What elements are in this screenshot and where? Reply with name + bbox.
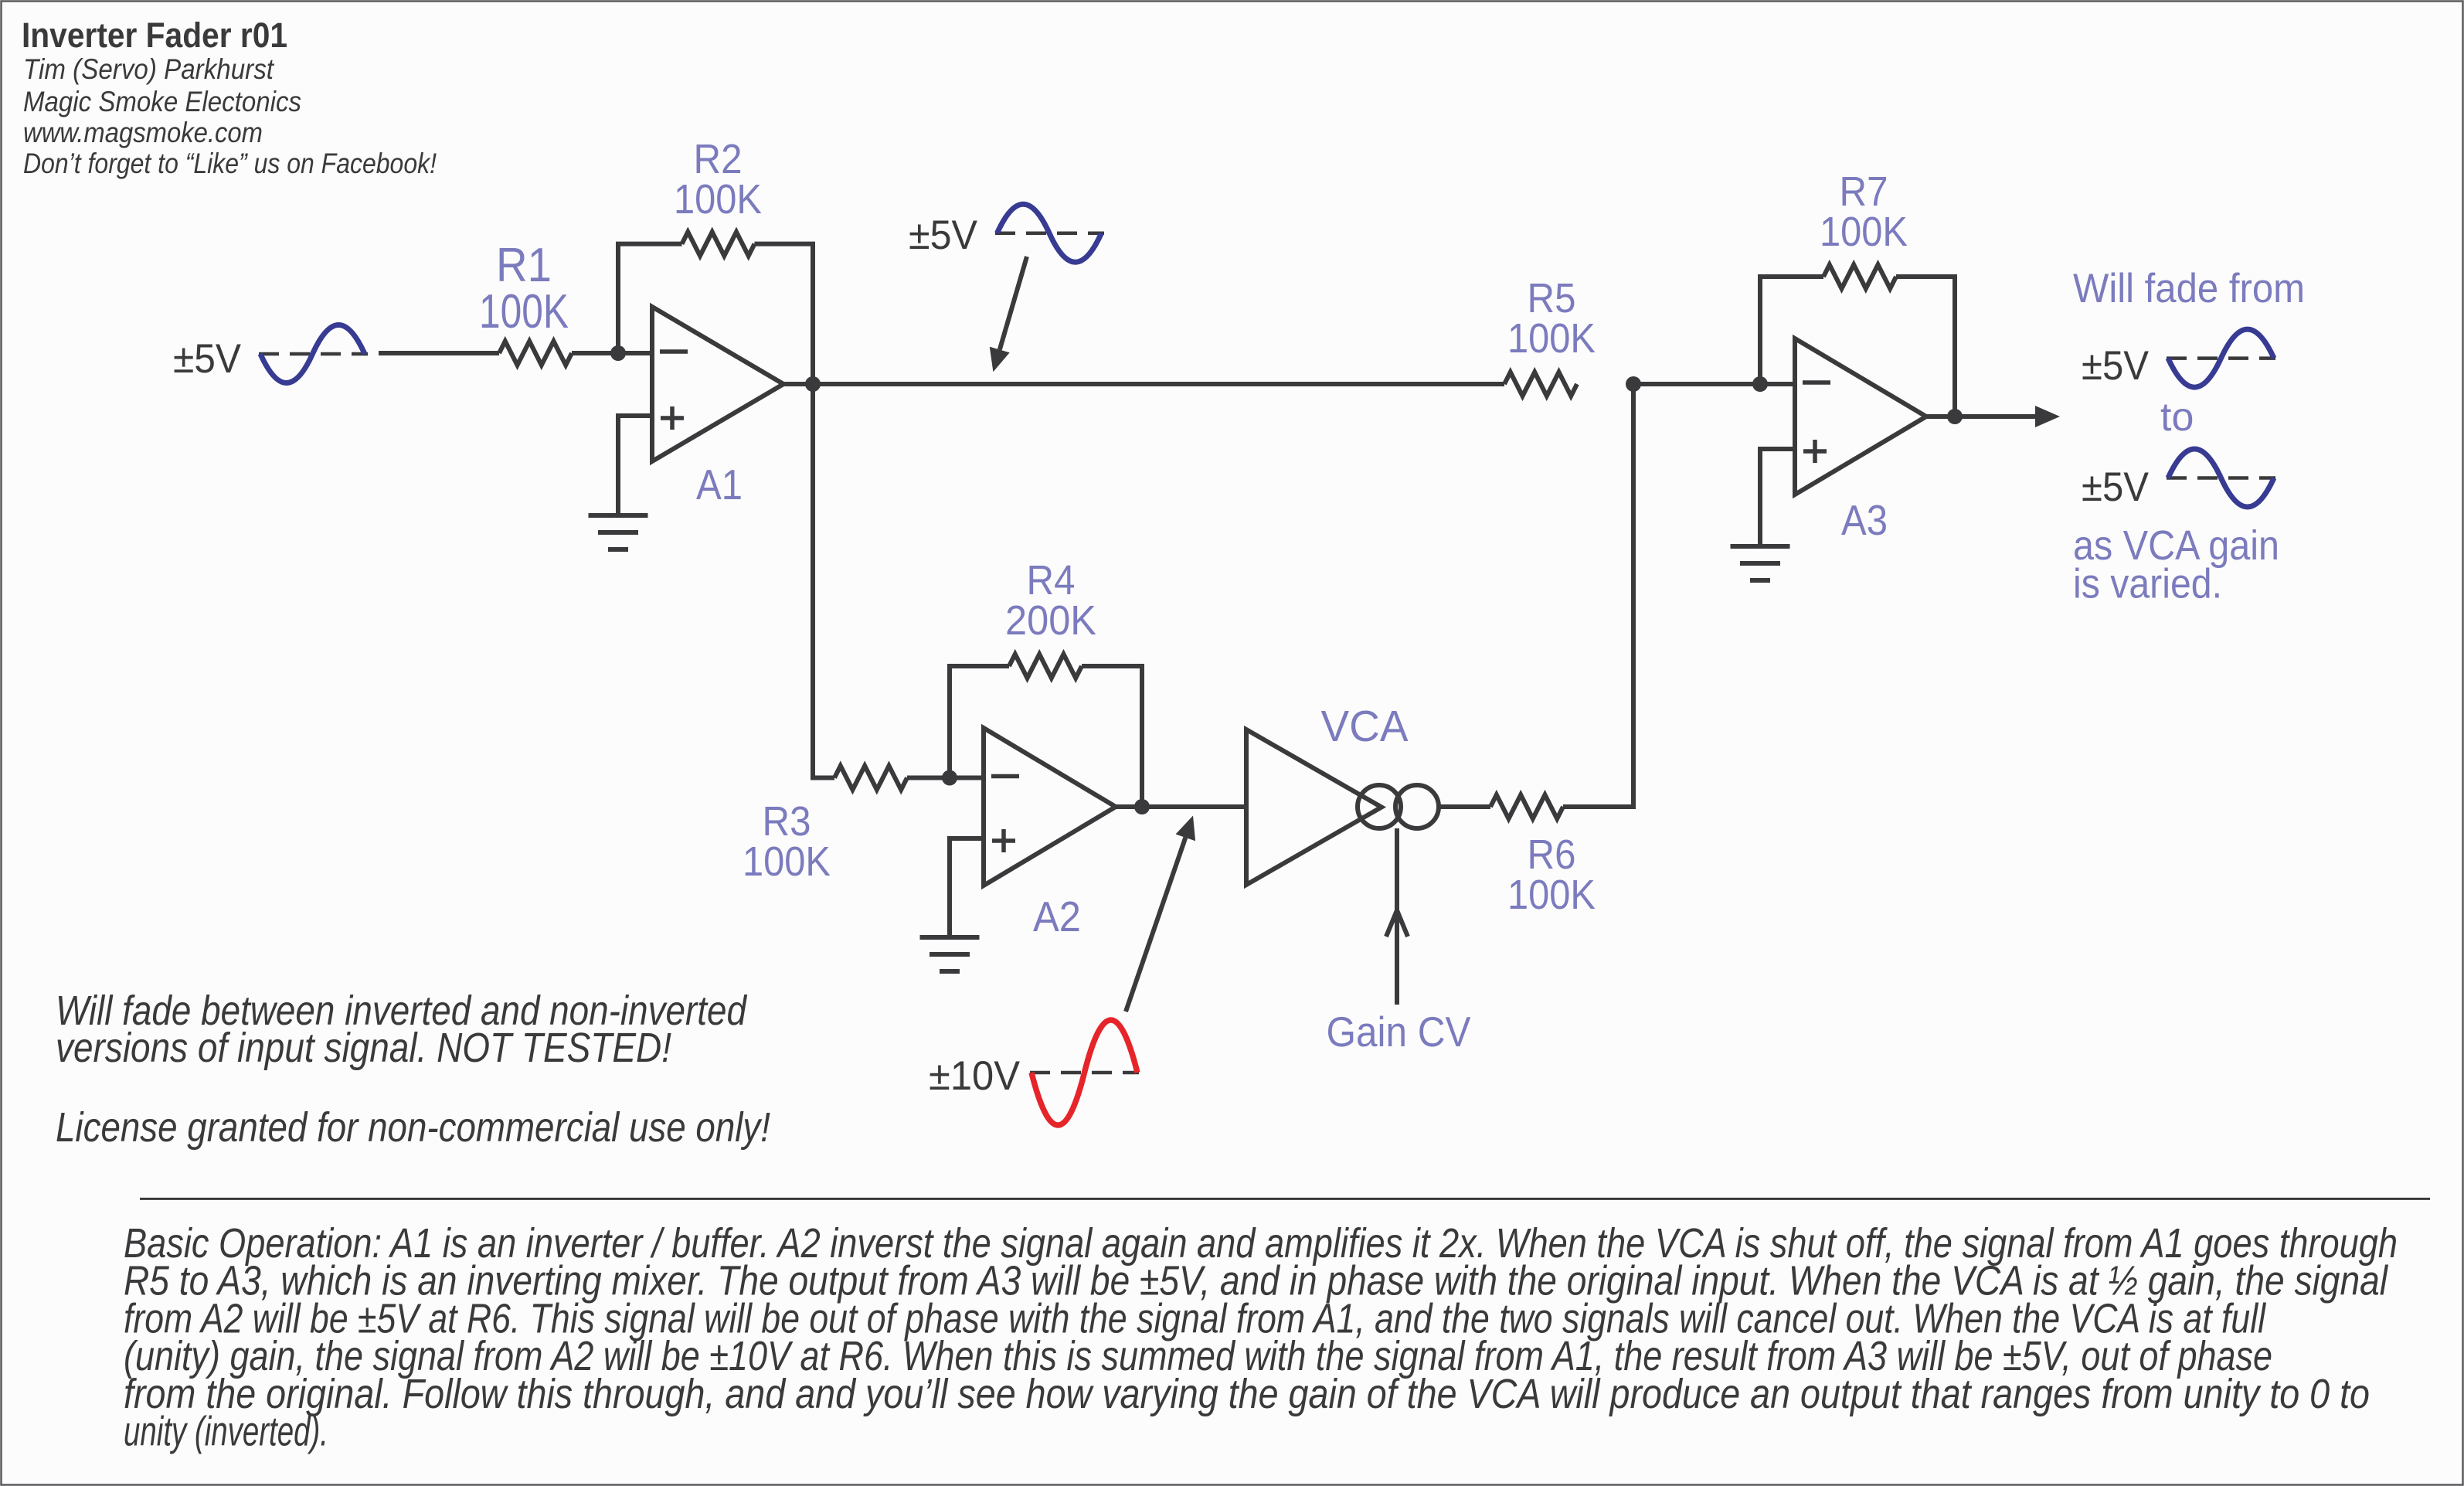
note basic operation paragraph bbox=[124, 1220, 2398, 1455]
Gain CV control line bbox=[1395, 828, 1399, 1005]
±10V sine wave symbol (red) bbox=[1030, 1020, 1139, 1125]
svg-text:License granted for non-commer: License granted for non-commercial use o… bbox=[56, 1104, 770, 1151]
svg-text:Will fade from: Will fade from bbox=[2073, 266, 2305, 311]
separator line bbox=[140, 1198, 2430, 1200]
label R6 100K bbox=[1507, 831, 1596, 918]
svg-text:R4: R4 bbox=[1027, 557, 1076, 604]
svg-text:Don’t forget to “Like” us on F: Don’t forget to “Like” us on Facebook! bbox=[23, 148, 437, 179]
label A1 bbox=[696, 461, 743, 508]
svg-text:Magic Smoke Electonics: Magic Smoke Electonics bbox=[23, 86, 301, 117]
label Gain CV bbox=[1327, 1008, 1471, 1056]
arrow from output sine to wire bbox=[990, 257, 1027, 372]
svg-text:100K: 100K bbox=[674, 176, 762, 223]
svg-text:is varied.: is varied. bbox=[2073, 561, 2222, 607]
wire R4 to A2 output bbox=[1082, 666, 1142, 807]
A1 non-inverting input pin + bbox=[661, 406, 684, 430]
wire R3 to node B bbox=[907, 776, 950, 780]
label A2 bbox=[1033, 893, 1081, 940]
label as VCA gain is varied bbox=[2073, 522, 2279, 607]
svg-text:R7: R7 bbox=[1840, 168, 1888, 215]
label Will fade from bbox=[2073, 266, 2305, 311]
op-amp A3 bbox=[1795, 338, 1926, 495]
title block bbox=[22, 15, 437, 179]
label ±5V at A1 output bbox=[909, 213, 978, 258]
resistor R5 bbox=[1504, 372, 1577, 396]
label ±10V bbox=[929, 1053, 1021, 1099]
arrow from ±10V sine to A2 output wire bbox=[1126, 816, 1195, 1012]
svg-text:from the original. Follow this: from the original. Follow this through, … bbox=[124, 1371, 2370, 1417]
svg-text:Tim (Servo) Parkhurst: Tim (Servo) Parkhurst bbox=[23, 53, 275, 85]
label R2 100K bbox=[674, 136, 762, 223]
svg-text:to: to bbox=[2160, 395, 2194, 440]
svg-text:100K: 100K bbox=[1507, 872, 1596, 918]
label R3 100K bbox=[743, 798, 831, 885]
svg-text:±5V: ±5V bbox=[2082, 343, 2150, 389]
op-amp A2 bbox=[984, 728, 1116, 886]
VCA current-source circles bbox=[1358, 785, 1439, 828]
wire node B to A2 pin - bbox=[950, 776, 984, 780]
svg-text:±5V: ±5V bbox=[909, 213, 978, 258]
node B junction (A2 inverting input) bbox=[942, 770, 957, 786]
Gain CV arrowhead bbox=[1386, 910, 1408, 937]
wire A2 output to VCA bbox=[1116, 804, 1246, 809]
svg-text:±5V: ±5V bbox=[2082, 464, 2150, 510]
wire A3 pin + to ground bbox=[1760, 449, 1795, 546]
label R1 100K bbox=[479, 239, 569, 338]
svg-text:200K: 200K bbox=[1005, 597, 1096, 644]
ground A2 bbox=[920, 937, 980, 971]
A3 non-inverting input pin + bbox=[1803, 440, 1827, 463]
node A1 output junction bbox=[805, 376, 821, 392]
svg-text:A3: A3 bbox=[1841, 496, 1888, 544]
label VCA bbox=[1321, 702, 1409, 751]
svg-text:A1: A1 bbox=[696, 461, 743, 508]
wire input to R1 bbox=[379, 351, 499, 355]
wire VCA output to R6 bbox=[1439, 804, 1490, 809]
svg-text:Inverter Fader r01: Inverter Fader r01 bbox=[22, 15, 287, 55]
node D junction (A3 inverting input) bbox=[1752, 376, 1768, 392]
label R5 100K bbox=[1507, 275, 1596, 362]
wire node D to A3 pin - bbox=[1760, 382, 1795, 386]
resistor R2 bbox=[682, 232, 755, 256]
resistor R7 bbox=[1823, 265, 1896, 289]
node C junction (R5/R6 sum) bbox=[1626, 376, 1641, 392]
resistor R1 bbox=[499, 342, 572, 366]
svg-text:www.magsmoke.com: www.magsmoke.com bbox=[23, 117, 263, 148]
wire R2 to A1 output bbox=[755, 244, 814, 384]
svg-text:R6: R6 bbox=[1528, 831, 1576, 878]
svg-text:R2: R2 bbox=[694, 136, 743, 182]
label ±5V output out of phase bbox=[2082, 464, 2150, 510]
A1 inverting input pin - bbox=[660, 349, 688, 354]
node A2 output junction bbox=[1134, 799, 1150, 814]
node input signal ±5V bbox=[173, 336, 242, 382]
svg-text:R1: R1 bbox=[496, 239, 552, 292]
A2 inverting input pin - bbox=[991, 774, 1019, 779]
wire A1 pin + to ground bbox=[618, 416, 652, 515]
op-amp A1 bbox=[652, 307, 783, 461]
note license bbox=[56, 1104, 770, 1151]
wire R7 to A3 output bbox=[1896, 277, 1955, 417]
svg-text:versions of input signal. NOT: versions of input signal. NOT TESTED! bbox=[56, 1025, 671, 1071]
A3 inverting input pin - bbox=[1803, 380, 1830, 385]
wire A1 output to R5 bbox=[783, 382, 1504, 386]
output sine wave symbol (in phase) bbox=[2167, 329, 2275, 387]
svg-text:unity (inverted).: unity (inverted). bbox=[124, 1409, 328, 1455]
ground A3 bbox=[1731, 546, 1790, 580]
node A junction (A1 inverting input) bbox=[610, 345, 626, 361]
wire R1 to node A bbox=[572, 351, 618, 355]
svg-text:100K: 100K bbox=[743, 838, 831, 885]
ground A1 bbox=[589, 515, 648, 549]
label A3 bbox=[1841, 496, 1888, 544]
svg-text:±10V: ±10V bbox=[929, 1053, 1021, 1099]
svg-text:R3: R3 bbox=[763, 798, 811, 845]
svg-text:100K: 100K bbox=[1820, 209, 1908, 255]
resistor R4 bbox=[1009, 655, 1082, 678]
svg-text:±5V: ±5V bbox=[173, 336, 242, 382]
label R7 100K bbox=[1820, 168, 1908, 255]
svg-text:A2: A2 bbox=[1033, 893, 1081, 940]
label to bbox=[2160, 395, 2194, 440]
wire A2 feedback riser left bbox=[950, 666, 1009, 778]
svg-text:100K: 100K bbox=[1507, 315, 1596, 362]
A2 non-inverting input pin + bbox=[992, 829, 1015, 852]
wire output with arrow bbox=[1926, 406, 2060, 427]
resistor R6 bbox=[1490, 795, 1563, 819]
resistor R3 bbox=[834, 766, 907, 790]
wire node C to node D bbox=[1633, 382, 1760, 386]
wire A1 feedback riser left bbox=[618, 244, 682, 353]
wire A2 pin + to ground bbox=[950, 838, 984, 937]
wire A1 output down to R3 bbox=[813, 384, 834, 778]
node A3 output junction bbox=[1947, 409, 1963, 424]
label ±5V output in phase bbox=[2082, 343, 2150, 389]
label R4 200K bbox=[1005, 557, 1096, 644]
svg-text:R5: R5 bbox=[1528, 275, 1576, 321]
wire R6 up to node C bbox=[1563, 384, 1633, 807]
wire node A to A1 pin - bbox=[618, 351, 652, 355]
svg-text:Gain CV: Gain CV bbox=[1327, 1008, 1471, 1056]
input sine wave symbol bbox=[259, 325, 368, 383]
svg-text:VCA: VCA bbox=[1321, 702, 1409, 751]
output sine wave symbol (out of phase) bbox=[2167, 449, 2275, 507]
note fade between bbox=[56, 988, 748, 1071]
wire A3 feedback riser left bbox=[1760, 277, 1823, 384]
amplifier VCA bbox=[1246, 729, 1382, 885]
svg-text:100K: 100K bbox=[479, 285, 569, 338]
A1 output sine wave symbol bbox=[995, 204, 1104, 262]
